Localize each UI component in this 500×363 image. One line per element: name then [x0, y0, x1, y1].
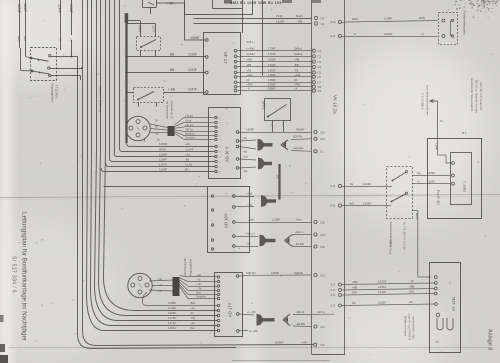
svg-text:+1.5V: +1.5V [185, 162, 193, 166]
svg-text:M2F-RH: M2F-RH [293, 136, 302, 139]
svg-text:+ BB: + BB [168, 88, 175, 92]
svg-text:-RE BW: -RE BW [296, 323, 306, 326]
svg-text:1101F: 1101F [378, 300, 386, 304]
svg-text:C: C [219, 162, 221, 164]
svg-text:+BB: +BB [352, 285, 357, 289]
svg-text:3055F: 3055F [296, 128, 305, 132]
svg-text:SL (Bordfunker): SL (Bordfunker) [170, 101, 174, 119]
svg-text:1047F: 1047F [188, 88, 197, 92]
svg-text:1171F: 1171F [168, 321, 176, 325]
svg-text:C: C [219, 140, 221, 142]
svg-text:FT 12 345-3: FT 12 345-3 [55, 85, 58, 99]
svg-text:713F: 713F [276, 14, 283, 18]
svg-text:Funkbetriebszeile: Funkbetriebszeile [463, 11, 467, 35]
svg-text:E,O: E,O [331, 184, 337, 188]
svg-text:S117 217 u.47 10 und 34: S117 217 u.47 10 und 34 [479, 82, 482, 111]
svg-text:Abstimm.: Abstimm. [185, 133, 196, 136]
svg-text:VK 16 Za: VK 16 Za [333, 95, 338, 114]
svg-text:BM1 B1 1009 16W B1 100: BM1 B1 1009 16W B1 100 [230, 1, 282, 5]
svg-text:C16: C16 [320, 245, 325, 249]
svg-text:-- fa: -- fa [196, 279, 201, 282]
svg-text:I gek. NF und FT-NOT M: I gek. NF und FT-NOT M [408, 314, 411, 340]
svg-text:S 17 LT 889 G: S 17 LT 889 G [421, 93, 425, 110]
svg-text:1163F: 1163F [168, 311, 176, 315]
svg-text:2d: 2d [435, 340, 439, 344]
svg-text:zum Höhenmeßumformer: zum Höhenmeßumformer [426, 85, 430, 116]
svg-text:C3: C3 [318, 60, 322, 64]
svg-text:-A: -A [353, 32, 356, 36]
svg-text:C: C [219, 136, 221, 138]
svg-text:-3a: -3a [185, 157, 189, 161]
svg-text:1159F: 1159F [271, 271, 279, 275]
svg-text:+A41: +A41 [247, 73, 254, 77]
svg-text:+1a pa: +1a pa [185, 115, 193, 118]
svg-text:Anlage 8: Anlage 8 [487, 329, 493, 350]
svg-text:B 1: B 1 [462, 131, 467, 135]
svg-text:1108F: 1108F [363, 201, 371, 205]
svg-text:C: C [219, 123, 221, 125]
svg-text:Abgesetzte Bedienung: Abgesetzte Bedienung [99, 86, 103, 113]
svg-text:S,O: S,O [331, 293, 335, 297]
svg-text:Abst: Abst [296, 218, 302, 222]
svg-text:C: C [219, 172, 221, 174]
svg-text:Ra11: Ra11 [296, 14, 303, 18]
svg-text:1266F: 1266F [268, 83, 276, 87]
svg-text:976F: 976F [159, 147, 166, 151]
svg-text:SG: SG [276, 175, 280, 179]
svg-text:1163F: 1163F [159, 142, 167, 146]
svg-text:--W: --W [409, 279, 414, 283]
svg-text:1167F: 1167F [159, 162, 167, 166]
svg-text:1164F: 1164F [159, 157, 167, 161]
svg-text:C: C [219, 157, 221, 159]
svg-text:1730F: 1730F [268, 47, 276, 51]
svg-text:1158F: 1158F [246, 128, 254, 132]
svg-text:SaK: SaK [17, 36, 21, 41]
svg-text:+2b: +2b [185, 142, 190, 146]
svg-text:C5: C5 [318, 71, 322, 75]
svg-text:1032F: 1032F [384, 32, 393, 36]
svg-text:+RB: +RB [294, 58, 300, 62]
svg-text:1102F: 1102F [427, 180, 435, 184]
svg-text:GW 11: GW 11 [317, 311, 325, 314]
svg-text:C12: C12 [320, 137, 325, 141]
svg-text:Anschluß der Teile entspricht: Anschluß der Teile entspricht [470, 78, 474, 112]
svg-text:+ 2b: + 2b [196, 283, 202, 286]
svg-text:1366F: 1366F [268, 78, 276, 82]
svg-text:FBGF 3: FBGF 3 [463, 181, 467, 192]
svg-text:+5b 1a: +5b 1a [185, 124, 193, 127]
svg-text:Anschaltung für: Anschaltung für [165, 101, 169, 119]
svg-text:-- fa --: -- fa -- [245, 243, 252, 246]
svg-text:FF: FF [247, 78, 251, 82]
svg-text:-1b: -1b [190, 311, 194, 315]
svg-text:E,O: E,O [331, 34, 337, 38]
svg-text:UF 17: UF 17 [223, 52, 228, 64]
svg-text:3b: 3b [155, 125, 158, 129]
svg-text:+RW: +RW [247, 83, 253, 87]
svg-text:1101F: 1101F [17, 4, 21, 13]
svg-text:A13 z: A13 z [247, 40, 255, 44]
svg-text:SpRa2: SpRa2 [294, 52, 303, 56]
svg-text:+BB: +BB [409, 284, 414, 288]
svg-text:Gleichstr.: Gleichstr. [196, 296, 207, 299]
svg-text:1139F: 1139F [69, 4, 73, 13]
svg-text:MZ 100 u.t. Reihenf. N-b.schr.: MZ 100 u.t. Reihenf. N-b.schr. [475, 80, 478, 114]
svg-text:an --NE: an --NE [249, 330, 258, 333]
svg-text:B2: B2 [185, 167, 189, 171]
svg-text:- A: - A [247, 87, 250, 91]
svg-text:Abst: Abst [249, 218, 255, 222]
svg-text:C4: C4 [321, 16, 325, 20]
svg-text:- A: - A [294, 87, 297, 91]
svg-text:FF: FF [294, 78, 298, 82]
svg-text:C11: C11 [320, 130, 325, 134]
svg-text:1168F: 1168F [159, 167, 167, 171]
svg-text:-fa1 BW: -fa1 BW [295, 243, 305, 246]
svg-text:S,O: S,O [331, 283, 335, 287]
svg-text:1558F: 1558F [191, 36, 200, 40]
svg-text:Sr 517 334 / 6: Sr 517 334 / 6 [11, 256, 17, 293]
svg-text:- BB: - BB [168, 68, 174, 72]
svg-text:MZF 16: MZF 16 [452, 297, 457, 312]
svg-text:1149F: 1149F [378, 290, 386, 294]
svg-text:C14: C14 [320, 233, 325, 237]
svg-text:1031F: 1031F [188, 68, 197, 72]
svg-text:1167F: 1167F [415, 213, 419, 221]
svg-text:HZ: HZ [352, 301, 356, 305]
svg-text:1170F: 1170F [168, 316, 176, 320]
svg-text:+ fa1 u.2: + fa1 u.2 [245, 233, 255, 236]
svg-text:-HG: -HG [190, 316, 195, 320]
svg-text:AD 18Y: AD 18Y [224, 213, 229, 228]
svg-text:C: C [219, 167, 221, 169]
svg-text:1032F: 1032F [378, 279, 387, 283]
svg-text:Leitungsplan für Bordfunkanlag: Leitungsplan für Bordfunkanlage im Nacht… [21, 212, 28, 341]
svg-text:- BB: - BB [168, 53, 174, 57]
svg-text:AD 16 Y: AD 16 Y [225, 146, 230, 162]
svg-text:+f, +HG: +f, +HG [247, 311, 256, 314]
svg-text:-- 5V: -- 5V [196, 288, 202, 291]
svg-text:1269F: 1269F [427, 171, 435, 175]
svg-text:SpR.R1: SpR.R1 [246, 271, 256, 275]
svg-text:1204F: 1204F [434, 143, 437, 151]
svg-text:C7: C7 [318, 81, 322, 85]
svg-text:+ BB: + BB [167, 1, 174, 5]
svg-text:2b: 2b [155, 119, 158, 123]
svg-text:-BB: -BB [247, 63, 252, 67]
svg-text:C: C [219, 118, 221, 120]
svg-text:E,D: E,D [331, 204, 336, 208]
svg-text:-1b ja: -1b ja [185, 120, 192, 123]
svg-text:Av. C Tu 264 F/4, Fu G 16: Av. C Tu 264 F/4, Fu G 16 [403, 222, 406, 250]
svg-text:+2a: +2a [190, 321, 195, 325]
svg-text:A13 Fu Gerät: A13 Fu Gerät [389, 240, 392, 255]
svg-text:1137F: 1137F [152, 26, 156, 34]
svg-text:1731F: 1731F [268, 52, 276, 56]
svg-text:1363F: 1363F [268, 68, 276, 72]
svg-text:C: C [219, 147, 221, 149]
svg-text:Flugzeugführer: Flugzeugführer [189, 258, 193, 276]
svg-text:S,O: S,O [331, 304, 335, 308]
svg-text:-BB: -BB [294, 63, 299, 67]
svg-text:+1a: +1a [190, 306, 195, 310]
svg-text:1365F: 1365F [268, 73, 276, 77]
svg-text:+fa1(-fa1): +fa1(-fa1) [293, 147, 304, 150]
svg-text:-AS: -AS [247, 68, 252, 72]
svg-text:SpRA0: SpRA0 [294, 271, 303, 275]
svg-text:1140F: 1140F [58, 4, 62, 13]
svg-text:1333F: 1333F [268, 63, 276, 67]
svg-text:- fa1: - fa1 [243, 170, 248, 173]
svg-text:S,O: S,O [331, 288, 335, 292]
svg-text:C6: C6 [318, 75, 322, 79]
svg-text:1149F: 1149F [363, 182, 371, 186]
svg-text:SpRa1: SpRa1 [294, 47, 303, 51]
svg-text:1136F: 1136F [272, 218, 280, 222]
svg-text:1132F: 1132F [188, 53, 197, 57]
svg-text:1138F: 1138F [384, 17, 392, 21]
svg-text:1166F: 1166F [159, 152, 167, 156]
svg-text:S+5: S+5 [331, 20, 336, 24]
svg-text:-NF 2a: -NF 2a [185, 129, 193, 132]
svg-text:+ RF: + RF [301, 341, 307, 345]
svg-text:+HG: +HG [349, 201, 355, 205]
svg-text:C8: C8 [318, 85, 322, 89]
svg-text:C1: C1 [320, 150, 324, 154]
svg-text:Gleichstr.: Gleichstr. [185, 137, 196, 140]
svg-text:+RB: +RB [247, 58, 253, 62]
svg-text:C1: C1 [318, 49, 322, 53]
svg-text:Ret: Ret [190, 326, 195, 330]
svg-text:1031F: 1031F [378, 285, 387, 289]
svg-text:7a: 7a [440, 119, 444, 123]
svg-text:(B1): (B1) [190, 301, 195, 305]
svg-text:(-fa): (-fa) [243, 137, 248, 140]
svg-text:+3a: +3a [185, 152, 190, 156]
svg-text:1332F: 1332F [268, 58, 276, 62]
svg-text:1286F: 1286F [268, 87, 276, 91]
svg-text:GW: GW [352, 290, 357, 294]
svg-text:Fu G 10: Fu G 10 [436, 190, 441, 205]
svg-text:1146F: 1146F [168, 306, 176, 310]
svg-text:C9: C9 [318, 89, 322, 93]
svg-text:--A: --A [420, 32, 424, 36]
svg-text:C4: C4 [318, 65, 322, 69]
svg-text:SvK: SvK [23, 36, 27, 41]
svg-text:HZ: HZ [409, 300, 413, 304]
svg-text:-DB: -DB [297, 19, 302, 23]
svg-text:Abst.: Abst. [196, 292, 202, 295]
svg-text:C: C [219, 132, 221, 134]
svg-text:C12: C12 [320, 325, 325, 329]
svg-text:MZA: MZA [352, 17, 358, 21]
svg-text:SpRa2: SpRa2 [247, 52, 256, 56]
svg-text:+ fa1: + fa1 [243, 155, 249, 158]
svg-text:+A41: +A41 [294, 73, 301, 77]
svg-text:Anschaltung für: Anschaltung für [183, 258, 187, 276]
svg-text:+ 5d: + 5d [196, 274, 202, 277]
svg-text:AD 17Y: AD 17Y [228, 302, 233, 317]
svg-text:(+)Ra1: (+)Ra1 [247, 47, 256, 51]
svg-text:C2: C2 [318, 54, 322, 58]
svg-text:C: C [219, 127, 221, 129]
svg-text:SPK1: SPK1 [262, 101, 266, 109]
svg-text:1151F: 1151F [168, 326, 176, 330]
svg-text:N: N [418, 180, 420, 184]
svg-text:Flugzeugführer: Flugzeugführer [51, 83, 55, 102]
svg-text:-1107F: -1107F [185, 147, 194, 151]
svg-text:C15: C15 [320, 343, 325, 347]
svg-text:1145F: 1145F [168, 301, 176, 305]
svg-text:C4: C4 [321, 22, 325, 26]
svg-text:SLK: SLK [409, 289, 414, 293]
svg-text:-- fa1: -- fa1 [246, 203, 253, 207]
svg-text:+BD: +BD [352, 280, 358, 284]
svg-text:1140F: 1140F [138, 25, 142, 33]
svg-text:+fa1: +fa1 [243, 151, 248, 154]
svg-text:C15: C15 [320, 220, 325, 224]
svg-text:5a: 5a [350, 182, 354, 186]
svg-text:C13: C13 [320, 273, 325, 277]
svg-text:zum Anschluß v. FBG: zum Anschluß v. FBG [412, 316, 415, 339]
svg-text:1056F: 1056F [275, 341, 284, 345]
svg-text:+RW: +RW [294, 83, 300, 87]
svg-text:-A5: -A5 [294, 68, 299, 72]
svg-text:821F: 821F [23, 4, 27, 12]
svg-text:C: C [219, 152, 221, 154]
svg-text:+fa1 /1--: +fa1 /1-- [295, 231, 305, 234]
svg-text:Brücke mit Platine: Brücke mit Platine [404, 316, 407, 337]
svg-text:1233F: 1233F [276, 19, 285, 23]
svg-text:MZS: MZS [419, 16, 425, 20]
svg-text:+ fa1: + fa1 [246, 192, 253, 196]
svg-text:+RE 11: +RE 11 [296, 311, 305, 314]
